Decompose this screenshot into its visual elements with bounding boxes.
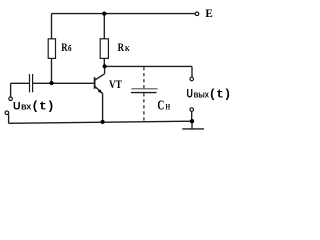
svg-text:C: C	[157, 98, 164, 113]
svg-text:VT: VT	[109, 77, 122, 91]
svg-text:Н: Н	[166, 102, 171, 111]
svg-text:ВХ: ВХ	[21, 103, 31, 112]
svg-text:U: U	[187, 87, 193, 101]
svg-text:ВЫХ: ВЫХ	[194, 91, 209, 100]
svg-text:(t): (t)	[209, 88, 232, 102]
svg-text:б: б	[68, 43, 72, 53]
svg-text:(t): (t)	[31, 100, 54, 114]
svg-text:R: R	[118, 41, 125, 54]
svg-text:E: E	[205, 7, 213, 20]
svg-text:К: К	[125, 44, 130, 53]
svg-text:U: U	[13, 101, 21, 113]
